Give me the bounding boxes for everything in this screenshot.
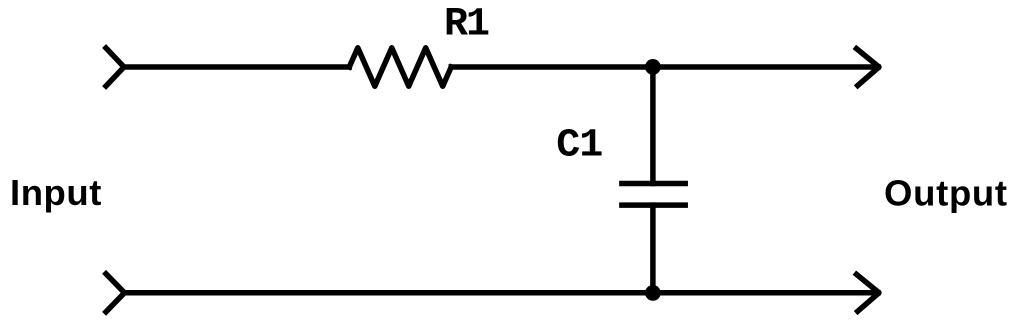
input terminal chevron (bottom-left) [106, 274, 125, 312]
svg-text:Output: Output [884, 173, 1008, 214]
svg-text:C1: C1 [556, 124, 602, 169]
output arrowhead (top-right) [857, 49, 880, 86]
capacitor C1 [622, 184, 685, 206]
node junction dot (bottom) [645, 285, 661, 301]
wire capacitor bottom lead [650, 205, 656, 293]
svg-text:R1: R1 [444, 3, 489, 48]
wire bottom rail [125, 290, 879, 296]
input terminal chevron (top-left) [106, 48, 124, 86]
output arrowhead (bottom-right) [857, 274, 880, 311]
wire top rail right segment [451, 64, 878, 70]
resistor R1 [349, 48, 451, 86]
wire capacitor top lead [650, 67, 656, 184]
wire top rail left segment [124, 64, 349, 70]
node junction dot (top) [645, 59, 661, 75]
svg-text:Input: Input [10, 172, 102, 213]
